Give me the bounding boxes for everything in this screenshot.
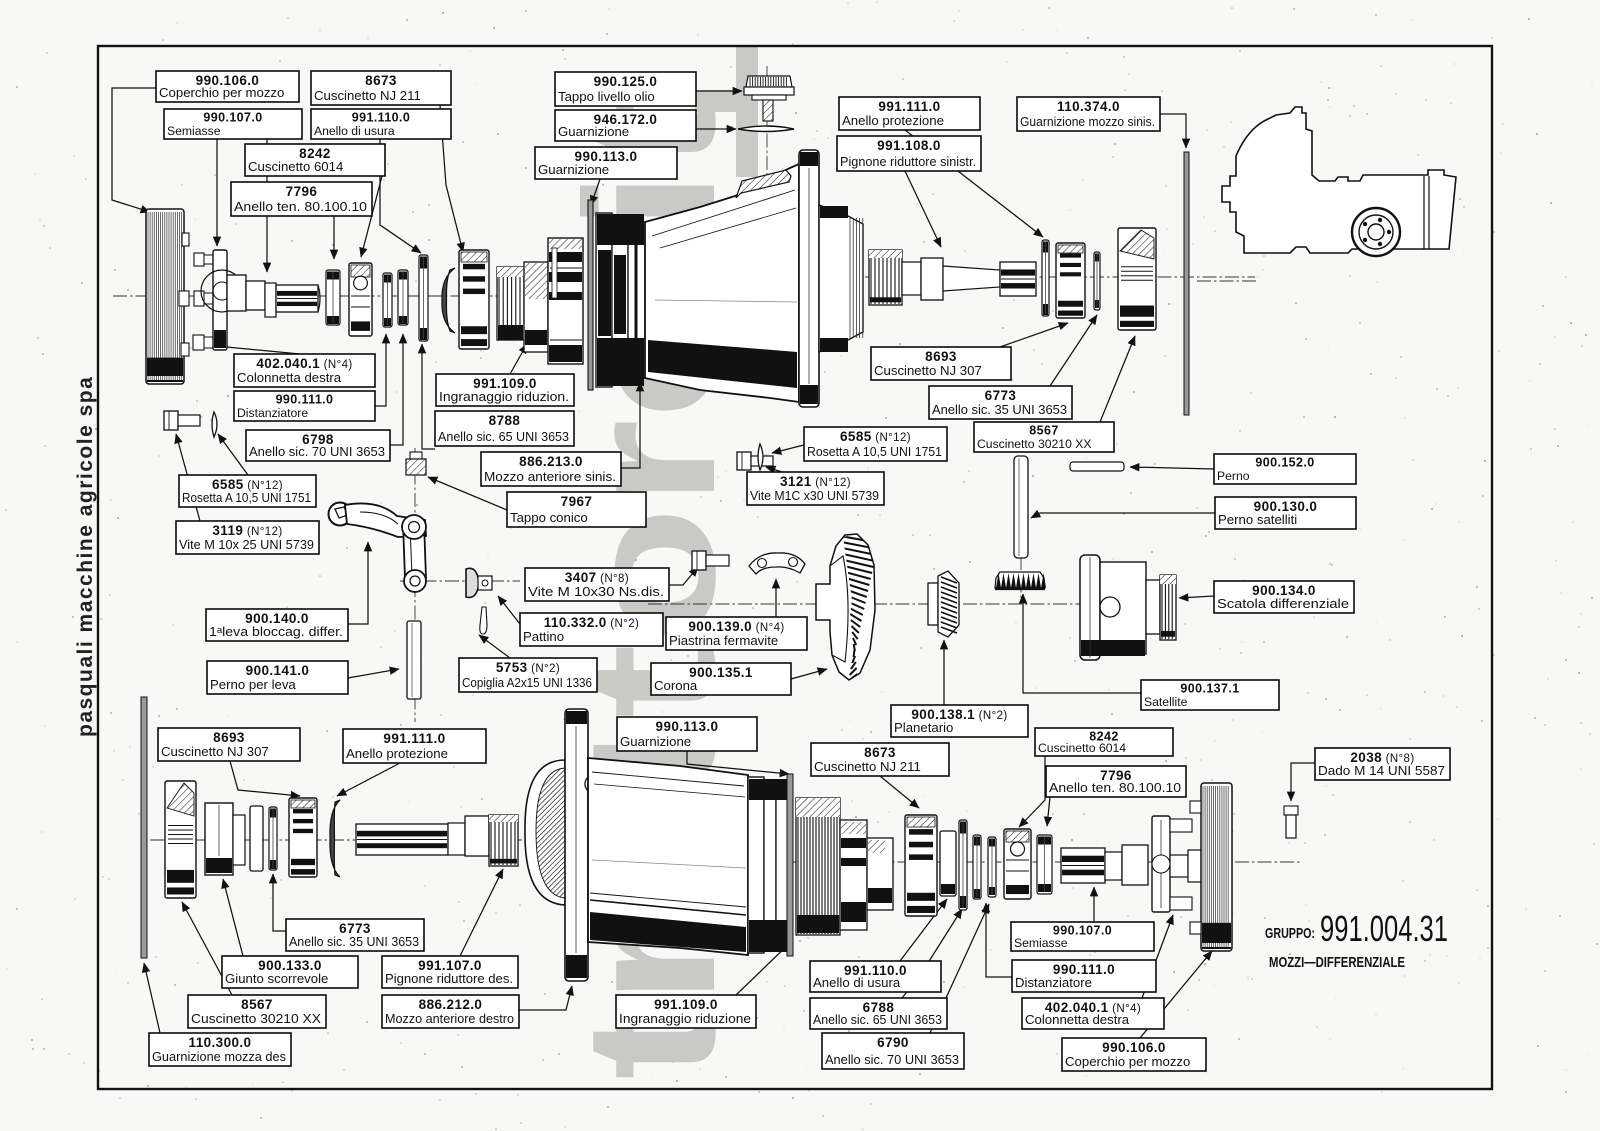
lever pin 900.141.0 perno per leva: [407, 621, 421, 699]
pin 900.152.0 perno: [1070, 462, 1124, 471]
svg-text:Cuscinetto 6014: Cuscinetto 6014: [248, 159, 343, 174]
bearing 6014 8242 (bottom row): [1004, 829, 1031, 899]
label box 991.109.0 Ingranaggio riduzione: [616, 995, 756, 1028]
label box 8673 Cuscinetto NJ 211: [811, 743, 949, 776]
label box 991.110.0 Anello di usura: [810, 961, 941, 992]
bearing NJ211 8673 (top row): [459, 250, 489, 349]
svg-text:991.108.0: 991.108.0: [877, 138, 941, 153]
label box 900.134.0 Scatola differenziale: [1214, 581, 1354, 613]
sliding sleeve 900.133.0 giunto: [205, 803, 245, 875]
svg-text:Distanziatore: Distanziatore: [237, 406, 308, 420]
svg-text:Distanziatore: Distanziatore: [1015, 975, 1092, 990]
protection washer 991.111.0 (top row): [442, 268, 455, 333]
label box 7967 Tappo conico: [507, 492, 646, 527]
leader line 44: [1019, 756, 1045, 827]
leader line 48: [223, 879, 243, 956]
svg-text:Rosetta A 10,5 UNI 1751: Rosetta A 10,5 UNI 1751: [807, 444, 942, 459]
spider pin 900.130.0 perno satelliti: [1014, 456, 1028, 558]
svg-text:990.111.0: 990.111.0: [276, 393, 334, 407]
label box 3119 Vite M 10x 25 UNI 5739: [176, 521, 319, 554]
svg-text:Anello sic. 65 UNI 3653: Anello sic. 65 UNI 3653: [438, 429, 569, 444]
leader line 54: [900, 899, 947, 961]
label box 8788 Anello sic. 65 UNI 3653: [435, 411, 574, 446]
left pinion shaft 991.108.0 (top row right): [869, 250, 1036, 305]
svg-text:3407 (N°8): 3407 (N°8): [565, 570, 629, 585]
centerline axis 5: [150, 839, 522, 841]
leader line 40: [230, 761, 300, 796]
label box 7796 Anello ten. 80.100.10: [1046, 766, 1186, 797]
snap ring (bottom row): [973, 835, 981, 899]
svg-text:900.141.0: 900.141.0: [246, 663, 310, 678]
lock lever 900.140.0: [329, 503, 427, 593]
svg-text:Anello sic. 35 UNI 3653: Anello sic. 35 UNI 3653: [289, 934, 419, 949]
leader line 41: [337, 763, 400, 796]
bearing 6014 8242 (top row): [349, 263, 372, 336]
svg-text:3119 (N°12): 3119 (N°12): [212, 523, 282, 538]
leader line 7: [333, 216, 335, 259]
bearing NJ307 8693 (top row right): [1056, 243, 1085, 318]
label box 7796 Anello ten. 80.100.10: [231, 182, 372, 216]
label box 110.300.0 Guarnizione mozza des: [149, 1033, 291, 1066]
label box 900.137.1 Satellite: [1141, 680, 1279, 710]
label box 5753 Copiglia A2x15 UNI 1336: [459, 658, 597, 692]
label box 990.113.0 Guarnizione: [617, 717, 757, 751]
label box 991.108.0 Pignone riduttore sinistr.: [837, 136, 981, 171]
svg-text:Planetario: Planetario: [894, 720, 953, 735]
bottom bell housing (mozzo destro): [525, 709, 790, 981]
leader line 6: [361, 176, 382, 257]
svg-text:Ingranaggio riduzion.: Ingranaggio riduzion.: [439, 389, 569, 404]
reduction gear + front hub (top row): [497, 238, 583, 364]
tractor silhouette (top right): [1222, 107, 1456, 256]
spacer ring 990.111.0 (top row): [383, 273, 392, 327]
svg-text:6585 (N°12): 6585 (N°12): [840, 429, 911, 444]
svg-text:110.332.0 (N°2): 110.332.0 (N°2): [544, 615, 639, 630]
oil level plug 990.125.0: [744, 76, 794, 121]
bearing NJ211 8673 (bottom row): [905, 815, 937, 916]
svg-text:Cuscinetto 30210 XX: Cuscinetto 30210 XX: [977, 437, 1092, 451]
svg-text:Cuscinetto NJ 211: Cuscinetto NJ 211: [814, 759, 921, 774]
leader line 36: [791, 669, 827, 679]
label box 886.212.0 Mozzo anteriore destro: [382, 995, 519, 1028]
svg-text:886.212.0: 886.212.0: [419, 997, 483, 1012]
centerline axis 8: [414, 448, 416, 722]
front hub / reduction gear stack (bottom row): [796, 798, 893, 935]
svg-text:110.300.0: 110.300.0: [189, 1035, 252, 1050]
svg-text:Anello di usura: Anello di usura: [813, 975, 901, 990]
leader line 26: [772, 445, 804, 453]
hub flange with studs colonnetta (bottom row): [1152, 816, 1206, 912]
label box 990.111.0 Distanziatore: [1012, 960, 1156, 992]
leader line 8: [696, 90, 742, 92]
leader line 19: [621, 382, 640, 468]
label box 6585 Rosetta A 10,5 UNI 1751: [179, 475, 316, 507]
label box 8567 Cuscinetto 30210 XX: [974, 422, 1114, 452]
leader line 45: [1047, 797, 1050, 826]
svg-text:Cuscinetto NJ 307: Cuscinetto NJ 307: [161, 744, 269, 759]
label box 991.111.0 Anello protezione: [343, 729, 486, 763]
axle shaft semiasse 990.107.0 (top row): [227, 275, 320, 317]
axle shaft semiasse 990.107.0 (bottom row): [1061, 845, 1148, 885]
leader line 53: [144, 963, 160, 1033]
label box 900.138.1 Planetario: [891, 705, 1028, 737]
svg-text:8788: 8788: [489, 413, 521, 428]
svg-text:6773: 6773: [985, 388, 1017, 403]
label box 991.109.0 Ingranaggio riduzion.: [436, 374, 574, 406]
svg-text:110.374.0: 110.374.0: [1057, 99, 1120, 114]
label box 946.172.0 Guarnizione: [555, 110, 696, 141]
leader line 20: [218, 434, 248, 475]
svg-text:Tappo conico: Tappo conico: [510, 510, 588, 525]
leader line 4: [440, 105, 463, 252]
label box 6788 Anello sic. 65 UNI 3653: [810, 998, 947, 1029]
svg-text:Piastrina fermavite: Piastrina fermavite: [669, 633, 778, 648]
label box 990.125.0 Tappo livello olio: [555, 72, 696, 106]
svg-text:Anello ten. 80.100.10: Anello ten. 80.100.10: [1049, 780, 1181, 795]
centerline axis 4: [400, 580, 520, 582]
svg-text:Pignone riduttore sinistr.: Pignone riduttore sinistr.: [840, 154, 976, 169]
svg-text:900.139.0 (N°4): 900.139.0 (N°4): [688, 619, 784, 634]
svg-text:Anello sic. 70 UNI 3653: Anello sic. 70 UNI 3653: [249, 444, 385, 459]
label box 6773 Anello sic. 35 UNI 3653: [286, 919, 424, 951]
label box 6773 Anello sic. 35 UNI 3653: [929, 386, 1072, 419]
svg-text:402.040.1 (N°4): 402.040.1 (N°4): [256, 356, 352, 371]
svg-text:8567: 8567: [241, 997, 273, 1012]
svg-text:Scatola differenziale: Scatola differenziale: [1217, 596, 1349, 611]
centerline axis 3: [648, 603, 1095, 605]
svg-text:990.113.0: 990.113.0: [656, 719, 719, 734]
svg-text:Cuscinetto 30210 XX: Cuscinetto 30210 XX: [191, 1011, 321, 1026]
label box 8673 Cuscinetto NJ 211: [311, 71, 451, 105]
svg-text:990.125.0: 990.125.0: [594, 74, 658, 89]
leader line 38: [1023, 594, 1141, 693]
leader line 43: [880, 776, 919, 808]
taper bearing 30210 8567 (bottom row): [165, 781, 196, 898]
svg-text:Cuscinetto NJ 307: Cuscinetto NJ 307: [874, 363, 982, 378]
wear ring 991.110.0 (bottom row): [940, 831, 956, 896]
label box 3407 Vite M 10x30 Ns.dis.: [525, 568, 669, 601]
leader line 29: [1031, 513, 1215, 518]
svg-text:Colonnetta destra: Colonnetta destra: [1025, 1012, 1130, 1027]
snap ring 6773 (top row right): [1094, 252, 1100, 310]
leader line 11: [905, 130, 1043, 237]
svg-text:Semiasse: Semiasse: [1014, 936, 1068, 950]
leader line 9: [696, 128, 736, 130]
crown bevel gear 900.135.1 corona: [816, 530, 880, 687]
label box 900.130.0 Perno satelliti: [1215, 497, 1356, 529]
leader line 30: [348, 542, 368, 624]
leader line 5: [380, 139, 421, 253]
ring (top row): [398, 270, 408, 325]
svg-text:Anello protezione: Anello protezione: [842, 113, 944, 128]
leader line 22: [428, 477, 507, 510]
leader line 42: [687, 751, 789, 774]
svg-text:Cuscinetto NJ 211: Cuscinetto NJ 211: [314, 88, 421, 103]
label box 990.106.0 Coperchio per mozzo: [1062, 1038, 1206, 1071]
label box 8693 Cuscinetto NJ 307: [871, 347, 1011, 380]
label box 991.110.0 Anello di usura: [311, 109, 451, 139]
group title text: [1265, 908, 1448, 971]
svg-text:pasquali macchine agricole spa: pasquali macchine agricole spa: [74, 376, 97, 737]
flange disc (bottom row): [250, 806, 263, 871]
svg-text:8693: 8693: [925, 349, 957, 364]
svg-text:900.135.1: 900.135.1: [689, 665, 753, 680]
label box 990.111.0 Distanziatore: [234, 391, 375, 421]
svg-text:Cuscinetto 6014: Cuscinetto 6014: [1038, 741, 1126, 755]
svg-text:Guarnizione: Guarnizione: [538, 162, 609, 177]
svg-text:Copiglia A2x15 UNI 1336: Copiglia A2x15 UNI 1336: [462, 675, 592, 690]
label box 6790 Anello sic. 70 UNI 3653: [822, 1033, 964, 1069]
svg-text:6790: 6790: [877, 1035, 909, 1050]
washer (right of pinion): [1042, 240, 1049, 316]
svg-text:Perno: Perno: [1217, 469, 1250, 483]
label box 6798 Anello sic. 70 UNI 3653: [246, 430, 390, 461]
leader line 17: [510, 344, 527, 374]
leader line 34: [775, 579, 777, 617]
centerline axis 7: [766, 66, 768, 198]
label box 8242 Cuscinetto 6014: [245, 144, 385, 176]
ring 7796 anello (top row): [326, 270, 340, 325]
leader line 2: [216, 139, 218, 246]
hub cover drum 990.106.0 (bottom row): [1190, 783, 1232, 951]
svg-text:3121 (N°12): 3121 (N°12): [780, 474, 851, 489]
leader line 52: [736, 941, 792, 995]
svg-text:GRUPPO:: GRUPPO:: [1265, 925, 1315, 942]
leader line 58: [986, 903, 1012, 977]
svg-text:Guarnizione: Guarnizione: [620, 734, 691, 749]
leader line 12: [905, 171, 941, 247]
label box 900.152.0 Perno: [1214, 454, 1356, 484]
svg-text:991.111.0: 991.111.0: [878, 99, 940, 114]
centerline axis 10: [1020, 556, 1022, 604]
label box 900.139.0 Piastrina fermavite: [666, 617, 807, 650]
label box 900.135.1 Corona: [651, 663, 791, 695]
label box 990.107.0 Semiasse: [1011, 922, 1154, 951]
svg-text:Anello sic. 35 UNI 3653: Anello sic. 35 UNI 3653: [932, 402, 1067, 417]
cotter pin 5753 copiglia: [480, 607, 487, 634]
svg-text:Vite M1C x30 UNI 5739: Vite M1C x30 UNI 5739: [750, 488, 879, 503]
hub cover drum 990.106.0 (top-left): [146, 209, 189, 384]
wear ring 991.110.0 (top row): [419, 255, 428, 341]
gasket strip 990.113.0 (bottom row thin vertical): [787, 774, 793, 956]
leader line 57: [1093, 887, 1095, 922]
top bell housing body (mozzo sinistro): [596, 150, 863, 407]
svg-text:Anello sic. 70 UNI 3653: Anello sic. 70 UNI 3653: [825, 1052, 959, 1067]
centerline axis 9: [1197, 280, 1256, 282]
leader line 51: [519, 986, 572, 1010]
leader line 56: [930, 904, 989, 1033]
svg-text:Rosetta A 10,5 UNI 1751: Rosetta A 10,5 UNI 1751: [182, 490, 311, 505]
gasket 110.300.0 (long thin strip bottom-left): [141, 697, 147, 958]
svg-text:8673: 8673: [365, 73, 397, 88]
leader line 13: [1160, 114, 1186, 148]
svg-text:Guarnizione: Guarnizione: [558, 124, 629, 139]
hex bolt 3119 with washer 6585 (left): [164, 411, 217, 437]
svg-text:Tappo livello olio: Tappo livello olio: [558, 89, 655, 104]
hex bolt 3121 with washer 6585 (right): [737, 444, 773, 470]
svg-text:Colonnetta destra: Colonnetta destra: [237, 370, 342, 385]
label box 402.040.1 Colonnetta destra: [1022, 998, 1164, 1029]
label box 886.213.0 Mozzo anteriore sinis.: [481, 452, 621, 486]
gasket strip 990.113.0 (top row, thin vertical): [588, 200, 593, 390]
pad screw + pattino 110.332.0: [466, 568, 492, 597]
leader line 47: [273, 874, 286, 931]
svg-text:991.004.31: 991.004.31: [1320, 908, 1448, 949]
leader line 10: [591, 179, 600, 205]
svg-text:Perno per leva: Perno per leva: [210, 677, 296, 692]
label box 8242 Cuscinetto 6014: [1035, 728, 1173, 756]
svg-text:Anello sic. 65 UNI 3653: Anello sic. 65 UNI 3653: [813, 1012, 942, 1027]
svg-text:990.107.0: 990.107.0: [203, 111, 262, 125]
svg-text:Satellite: Satellite: [1144, 695, 1188, 709]
label box 991.107.0 Pignone riduttore des.: [382, 956, 518, 988]
leader line 39: [943, 640, 945, 705]
label box 110.374.0 Guarnizione mozzo sinis.: [1017, 97, 1160, 131]
svg-text:Vite M 10x 25 UNI 5739: Vite M 10x 25 UNI 5739: [179, 537, 314, 552]
svg-text:Coperchio per mozzo: Coperchio per mozzo: [1065, 1054, 1190, 1069]
svg-text:Anello ten. 80.100.10: Anello ten. 80.100.10: [234, 199, 367, 214]
leader line 59: [1142, 915, 1173, 998]
label box 402.040.1 Colonnetta destra: [234, 354, 375, 387]
right pinion splined shaft 991.107.0: [356, 815, 518, 866]
svg-text:Pignone riduttore des.: Pignone riduttore des.: [385, 971, 513, 986]
svg-text:5753 (N°2): 5753 (N°2): [496, 660, 560, 675]
svg-text:Mozzo anteriore sinis.: Mozzo anteriore sinis.: [484, 469, 616, 484]
centerline axis 1: [113, 295, 585, 297]
label box 900.140.0 1ᵃleva bloccag. differ.: [206, 609, 348, 641]
svg-text:Anello protezione: Anello protezione: [346, 746, 448, 761]
svg-text:Giunto scorrevole: Giunto scorrevole: [225, 971, 328, 986]
leader line 24: [1050, 315, 1097, 386]
svg-text:990.106.0: 990.106.0: [1102, 1040, 1166, 1055]
snap ring 6790 (bottom row): [988, 837, 996, 897]
label box 990.106.0 Coperchio per mozzo: [156, 71, 299, 102]
leader line 21: [176, 434, 200, 521]
gasket 110.374.0 (long thin strip): [1184, 152, 1189, 415]
leader line 55: [902, 909, 962, 998]
svg-text:886.213.0: 886.213.0: [519, 454, 583, 469]
svg-text:7796: 7796: [286, 184, 318, 199]
svg-text:Ingranaggio riduzione: Ingranaggio riduzione: [619, 1011, 751, 1026]
leader line 27: [766, 467, 782, 472]
svg-text:900.152.0: 900.152.0: [1255, 456, 1314, 470]
bearing NJ307 8693 (bottom row): [289, 798, 317, 877]
lock plate 900.139.0 piastrina fermavite: [749, 553, 805, 574]
label box 900.141.0 Perno per leva: [207, 661, 348, 694]
snap ring 6788 (bottom row): [959, 820, 967, 910]
svg-text:Vite M 10x30 Ns.dis.: Vite M 10x30 Ns.dis.: [528, 584, 664, 599]
svg-text:8693: 8693: [213, 730, 245, 745]
svg-text:991.109.0: 991.109.0: [654, 997, 718, 1012]
leader line 50: [182, 902, 232, 995]
washer 946.172.0 (edge-on): [738, 126, 794, 132]
svg-text:991.111.0: 991.111.0: [383, 731, 445, 746]
bolt 3407 vite M10x30: [692, 551, 729, 570]
ring 7796 (bottom row): [1037, 835, 1052, 894]
leader line 33: [498, 596, 520, 624]
label box 2038 Dado M 14 UNI 5587: [1315, 748, 1450, 780]
label box 900.133.0 Giunto scorrevole: [222, 956, 358, 988]
differential housing 900.134.0 scatola: [1080, 555, 1176, 660]
label box 991.111.0 Anello protezione: [839, 97, 980, 130]
label box 3121 Vite M1C x30 UNI 5739: [747, 472, 884, 505]
label box 110.332.0 Pattino: [520, 613, 663, 646]
label box 8567 Cuscinetto 30210 XX: [188, 995, 326, 1028]
svg-text:Dado M 14 UNI 5587: Dado M 14 UNI 5587: [1318, 763, 1445, 778]
svg-text:8673: 8673: [864, 745, 896, 760]
axle flange with studs (top-left): [193, 250, 243, 350]
svg-text:8567: 8567: [1029, 424, 1058, 438]
svg-text:900.137.1: 900.137.1: [1180, 682, 1239, 696]
centerline axis 6: [560, 861, 1300, 863]
watermark vertical bar top: [695, 45, 758, 177]
leader line 18: [422, 344, 435, 449]
svg-text:Semiasse: Semiasse: [167, 124, 221, 138]
svg-text:7967: 7967: [561, 494, 593, 509]
leader line 60: [1140, 951, 1212, 1038]
leader line 1: [112, 88, 156, 212]
cone plug 7967 tappo conico: [406, 452, 426, 475]
label box 6585 Rosetta A 10,5 UNI 1751: [804, 427, 947, 461]
svg-text:991.110.0: 991.110.0: [352, 111, 411, 125]
side gear 900.138.1 planetario: [928, 571, 959, 637]
spider gear 900.137.1 satellite (top view): [995, 572, 1046, 589]
leader line 14: [206, 345, 300, 354]
centerline axis 2: [865, 276, 1255, 278]
svg-text:1ᵃleva bloccag. differ.: 1ᵃleva bloccag. differ.: [209, 624, 343, 639]
leader line 37: [1179, 596, 1214, 598]
leader line 49: [460, 869, 503, 956]
leader line 31: [348, 669, 399, 678]
svg-text:Anello di usura: Anello di usura: [314, 124, 395, 138]
svg-text:Guarnizione mozza des: Guarnizione mozza des: [152, 1049, 286, 1064]
svg-text:Mozzo anteriore destro: Mozzo anteriore destro: [385, 1011, 514, 1026]
label box 8693 Cuscinetto NJ 307: [158, 728, 300, 761]
svg-text:Pattino: Pattino: [523, 629, 564, 644]
svg-text:Perno satelliti: Perno satelliti: [1218, 512, 1297, 527]
svg-text:MOZZI—DIFFERENZIALE: MOZZI—DIFFERENZIALE: [1269, 954, 1405, 971]
leader line 23: [1000, 323, 1068, 347]
svg-text:Corona: Corona: [654, 678, 698, 693]
svg-text:Coperchio per mozzo: Coperchio per mozzo: [159, 85, 284, 100]
snap ring 6773 (bottom row): [269, 807, 277, 870]
taper bearing 30210 8567 (top row right): [1118, 228, 1156, 330]
leader line 35: [479, 635, 510, 658]
leader line 15: [375, 334, 386, 406]
leader line 16: [390, 334, 403, 445]
nut 2038 dado M14: [1284, 806, 1298, 838]
leader line 46: [1291, 763, 1315, 801]
leader line 3: [266, 139, 268, 272]
leader line 25: [1100, 336, 1135, 422]
protection washer 991.111.0 (bottom row): [330, 800, 340, 877]
leader line 32: [669, 567, 698, 585]
label box 990.107.0 Semiasse: [164, 109, 302, 139]
label box 990.113.0 Guarnizione: [535, 147, 677, 179]
leader line 28: [1130, 467, 1214, 469]
svg-text:Guarnizione mozzo sinis.: Guarnizione mozzo sinis.: [1020, 114, 1155, 129]
